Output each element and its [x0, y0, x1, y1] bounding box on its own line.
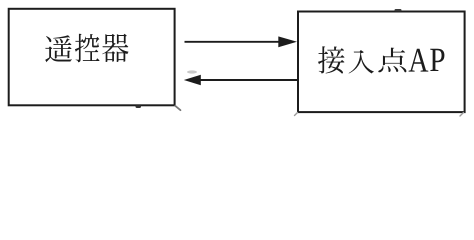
label 遥控器 char 器	[102, 34, 128, 62]
arrowhead left	[184, 75, 201, 86]
label 遥控器 char 控	[75, 34, 100, 63]
arrowhead right	[278, 36, 297, 47]
label 接入点AP char 入	[349, 50, 374, 73]
wire: arrow AP->remote line	[200, 79, 298, 81]
label 遥控器 char 遥	[45, 35, 72, 62]
box: access point (接入点AP)	[298, 12, 465, 113]
label 接入点AP char 接	[318, 46, 344, 73]
label 接入点AP char A	[409, 49, 429, 72]
wire: arrow remote->AP line	[185, 41, 282, 43]
artifact: diagonal tail at AP box bottom-left	[295, 113, 298, 116]
artifact: blob below remote box bottom	[136, 105, 142, 108]
label 接入点AP char 点	[378, 48, 406, 73]
artifact: smudge above left arrowhead	[187, 70, 197, 73]
artifact: diagonal tail at AP box bottom-right	[460, 113, 464, 117]
label 接入点AP char P	[430, 49, 444, 71]
box: remote controller (遥控器)	[9, 9, 175, 106]
artifact: tick above AP box top	[395, 9, 402, 11]
artifact: diagonal tail at remote box corner	[175, 106, 180, 110]
block diagram: remote controller <-> access point AP	[0, 0, 474, 123]
